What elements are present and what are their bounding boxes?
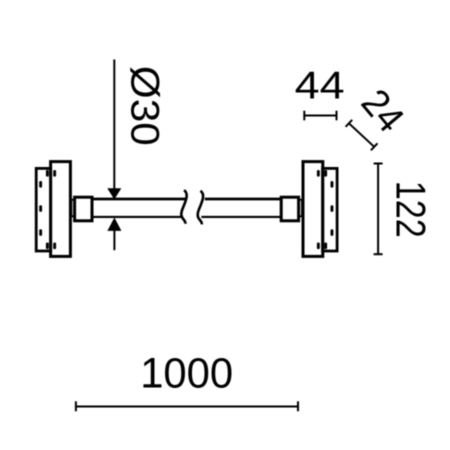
tube left section top line bbox=[93, 198, 187, 201]
screw hole left plate 1 bbox=[39, 181, 42, 188]
dimension line 1000 bbox=[76, 406, 298, 408]
tube right section bottom line bbox=[201, 216, 281, 218]
break curve right bbox=[198, 191, 203, 225]
screw hole left plate 3 bbox=[39, 229, 42, 236]
svg-text:1000: 1000 bbox=[140, 349, 233, 397]
svg-text:122: 122 bbox=[388, 181, 435, 238]
screw hole right plate 3 bbox=[331, 229, 334, 236]
dimension line 24 bbox=[349, 123, 374, 147]
screw pair right bottom B bbox=[324, 243, 327, 250]
bracket body right bbox=[303, 162, 323, 257]
end cap right bbox=[281, 197, 298, 221]
tick 122 bottom bbox=[374, 253, 383, 255]
screw hole right plate 1 bbox=[331, 181, 334, 188]
screw hole left plate 2 bbox=[39, 205, 42, 212]
svg-text:44: 44 bbox=[295, 64, 345, 107]
diameter arrow up bbox=[107, 218, 121, 231]
tube left section bottom line bbox=[93, 216, 183, 218]
screw pair left top B bbox=[53, 170, 56, 177]
stem nub left bbox=[71, 200, 74, 217]
break curve left bbox=[181, 190, 186, 224]
tick 122 top bbox=[374, 163, 383, 165]
screw pair right bottom A bbox=[317, 243, 320, 250]
screw pair left bottom A bbox=[46, 243, 49, 250]
screw pair right top B bbox=[324, 170, 327, 177]
end cap left bbox=[75, 197, 92, 221]
dimension line 44 bbox=[304, 115, 336, 117]
svg-text:24: 24 bbox=[353, 82, 412, 141]
wall plate left bbox=[36, 168, 51, 251]
tube right section top line bbox=[205, 198, 281, 201]
stem nub right bbox=[299, 200, 302, 217]
screw pair left bottom B bbox=[53, 243, 56, 250]
bracket body left bbox=[51, 162, 71, 257]
screw hole right plate 2 bbox=[331, 205, 334, 212]
tick 1000 right bbox=[297, 401, 299, 411]
wall plate right bbox=[323, 168, 338, 251]
svg-text:Ø30: Ø30 bbox=[123, 66, 167, 146]
tick 44 right bbox=[336, 111, 338, 121]
tick 24 upper bbox=[346, 120, 353, 127]
tick 44 left bbox=[303, 111, 305, 121]
screw pair right top A bbox=[317, 170, 320, 177]
diameter arrow down bbox=[107, 188, 121, 199]
screw pair left top A bbox=[46, 170, 49, 177]
diameter leader line bottom bbox=[113, 230, 115, 250]
tick 1000 left bbox=[75, 401, 77, 411]
dimension line 122 bbox=[377, 164, 379, 255]
diameter leader line top bbox=[113, 60, 115, 190]
tick 24 lower bbox=[371, 143, 378, 150]
